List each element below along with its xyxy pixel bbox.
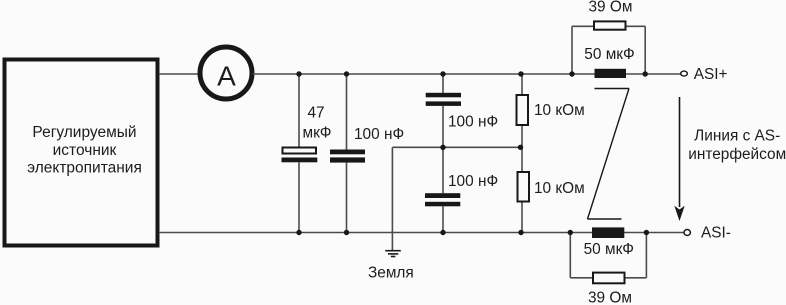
bottom rail wire [159, 232, 684, 234]
svg-text:электропитания: электропитания [27, 160, 142, 177]
capacitor C1 47uF branch: top wire [298, 74, 300, 147]
svg-text:ASI-: ASI- [701, 224, 731, 241]
svg-text:47: 47 [307, 105, 324, 122]
svg-text:10 кОм: 10 кОм [534, 102, 585, 119]
svg-text:10 кОм: 10 кОм [534, 180, 585, 197]
svg-text:мкФ: мкФ [302, 125, 331, 142]
capacitor C4 100nF plates [425, 193, 460, 206]
junction mid node at C3-C4 [440, 145, 445, 150]
junction C1 top rail [296, 71, 301, 76]
wire loop R3 top left [572, 25, 594, 27]
wire R1 to R2 [521, 126, 523, 172]
capacitor C1 47uF electrolytic plates [282, 148, 318, 163]
junction C2 bottom rail [344, 230, 349, 235]
cable break symbol between L1 and L2 [588, 89, 630, 220]
wire loop R3 right vertical [644, 26, 646, 74]
top rail wire [253, 73, 681, 75]
terminal ASI- [684, 230, 690, 236]
svg-text:Земля: Земля [368, 265, 414, 282]
junction R2 bottom rail [518, 230, 523, 235]
svg-text:39 Ом: 39 Ом [589, 0, 633, 16]
terminal ASI+ [681, 71, 688, 76]
capacitor C4 branch: bottom wire [442, 206, 444, 232]
wire box to ammeter [159, 73, 200, 75]
inductor L1 50 мкФ [595, 69, 627, 78]
arrow line [679, 97, 681, 207]
ground wire [391, 147, 393, 250]
arrow head [674, 206, 684, 221]
svg-text:Линия с AS-: Линия с AS- [694, 128, 780, 145]
svg-text:интерфейсом: интерфейсом [688, 146, 786, 163]
wire C3 to C4 through mid node [442, 106, 444, 193]
svg-text:100 нФ: 100 нФ [448, 113, 498, 130]
mid node wire [392, 146, 520, 148]
svg-text:50 мкФ: 50 мкФ [584, 241, 634, 258]
label 47 мкФ [302, 105, 331, 142]
capacitor C2 100nF branch: bottom wire [346, 163, 348, 233]
junction R3-L1 loop right top rail [643, 71, 648, 76]
junction mid node at R1-R2 [518, 145, 523, 150]
svg-text:100 нФ: 100 нФ [354, 126, 404, 143]
junction R4-L2 loop right bottom rail [644, 230, 649, 235]
wire loop R4 bottom right [626, 277, 647, 279]
label Линия с AS-интерфейсом [688, 128, 786, 163]
inductor L2 50 мкФ [592, 227, 624, 238]
svg-text:ASI+: ASI+ [694, 66, 728, 83]
resistor R1 10 кОм [517, 95, 529, 125]
junction R4-L2 loop left bottom rail [568, 230, 573, 235]
capacitor C3 100nF branch: top wire [442, 74, 444, 93]
svg-text:39 Ом: 39 Ом [588, 290, 632, 305]
junction R1 top rail [518, 71, 523, 76]
ground symbol [385, 251, 401, 257]
wire loop R4 right vertical [645, 233, 647, 278]
resistor R2 branch: bottom wire [521, 203, 523, 233]
wire loop R3 left vertical [571, 26, 573, 74]
resistor R2 10 кОм [518, 172, 530, 202]
resistor R4 39 Ом [593, 273, 625, 284]
wire loop R4 bottom left [570, 277, 593, 279]
junction C1 bottom rail [296, 230, 301, 235]
capacitor C2 100nF plates [330, 150, 365, 163]
resistor R3 39 Ом [594, 21, 626, 29]
junction C4 bottom rail [440, 230, 445, 235]
svg-text:100 нФ: 100 нФ [448, 173, 498, 190]
resistor R1 10k branch: top wire [521, 74, 523, 95]
ammeter A [200, 47, 252, 99]
capacitor C2 100nF branch: top wire [346, 74, 348, 150]
capacitor C1 47uF branch: bottom wire [298, 162, 300, 232]
junction C2 top rail [344, 71, 349, 76]
wire loop R3 top right [627, 25, 646, 27]
wire loop R4 left vertical [569, 233, 571, 278]
svg-text:Регулируемый: Регулируемый [32, 124, 136, 141]
junction R3-L1 loop left top rail [569, 71, 574, 76]
svg-text:A: A [217, 61, 236, 92]
capacitor C3 100nF plates [426, 93, 461, 106]
junction C3 top rail [440, 71, 445, 76]
power supply box [5, 60, 158, 246]
svg-text:источник: источник [53, 142, 117, 159]
svg-text:50 мкФ: 50 мкФ [584, 46, 634, 63]
